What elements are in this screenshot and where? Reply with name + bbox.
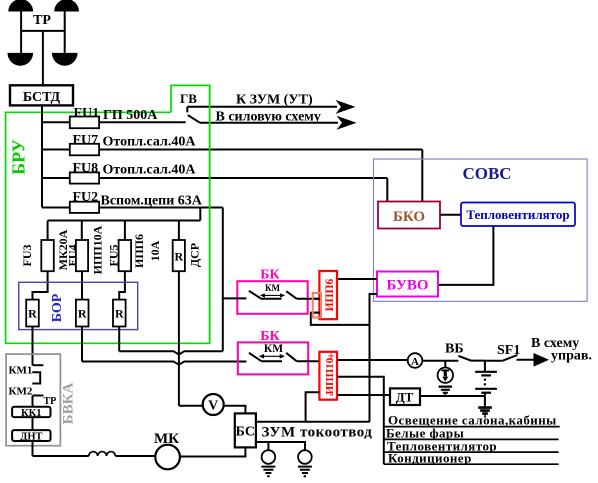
ammeter A (408, 353, 423, 368)
svg-text:FU8: FU8 (73, 161, 99, 176)
block IPP10 (red) (319, 352, 337, 400)
PART: BRU green box (6, 85, 210, 343)
wire FU2 drop to sub-bus (199, 208, 201, 221)
svg-text:БК: БК (260, 329, 280, 344)
PART: GV switch and arrows (180, 91, 356, 130)
battery plate long 1 (475, 371, 497, 373)
block BK2 boundary (magenta) (238, 342, 308, 374)
svg-text:R: R (78, 307, 87, 321)
wire ZUM top line (BS to long vertical) (256, 421, 370, 423)
resistor R1 (26, 300, 39, 327)
wire R2 down and node line B (82, 327, 246, 365)
wire FU8 row (42, 177, 387, 179)
voltmeter V (203, 394, 224, 415)
switch SF1 blade (502, 355, 518, 361)
PART: SOVS block right (337, 159, 587, 422)
block DT (390, 388, 420, 405)
block IPP6 (red) (319, 271, 337, 319)
tokootvod symbol 2 circle (298, 450, 312, 464)
svg-text:ДСР: ДСР (188, 243, 202, 267)
arrowhead V silovuyu (337, 116, 357, 130)
PART: bottom MK, BS, ZUM (33, 394, 373, 476)
wire branch FU5 (119, 221, 125, 300)
svg-text:СОВС: СОВС (462, 164, 511, 183)
wire stem to voltage arrester (444, 361, 446, 368)
load list row 2 underline (384, 438, 559, 440)
svg-text:FU5: FU5 (107, 245, 121, 267)
PART: right bottom battery, DT, list (337, 336, 592, 466)
wire ZUM bottom line (256, 442, 305, 450)
svg-text:FU1: FU1 (74, 106, 100, 121)
PART: top pantographs (8, 0, 80, 85)
battery stem bottom (484, 393, 486, 407)
wire FU1 row (42, 121, 186, 123)
load list row 3 underline (384, 451, 559, 453)
svg-text:R: R (174, 250, 183, 264)
switch VB blade (458, 356, 485, 361)
svg-text:Вспом.цепи 63А: Вспом.цепи 63А (101, 194, 203, 209)
wire branch FU3 (33, 221, 48, 300)
wire center drop to BSTD (42, 31, 44, 85)
svg-text:SF1: SF1 (497, 343, 520, 358)
svg-text:FU2: FU2 (73, 190, 99, 205)
wire MK to BS bottom (180, 447, 246, 456)
svg-text:ТР: ТР (44, 396, 57, 407)
svg-text:управ.: управ. (551, 349, 592, 364)
wire DT to battery bottom (420, 395, 485, 397)
wire IPP6 lower terminal (311, 313, 370, 325)
PART: branch fuses FU3-FU5, DSR, BOR (19, 221, 247, 406)
pantograph collector shoe top-left (8, 0, 33, 12)
arrowhead K ZUM (336, 100, 356, 114)
contact KM1 fixed tick (33, 364, 44, 366)
pantograph base left (8, 53, 34, 66)
block BRU boundary (green) (6, 85, 210, 343)
symbol double arrow BK2 (262, 355, 284, 357)
ground under battery (478, 408, 492, 417)
block KK1 (12, 407, 50, 417)
svg-text:V: V (208, 399, 218, 414)
wire FU7 row (42, 149, 422, 151)
wire FU2 extension drop to BK1 and node line (222, 208, 224, 352)
wire IPP10 main row to ammeter (337, 359, 408, 361)
svg-text:R: R (115, 307, 124, 321)
wire DNT down to bottom bus (32, 441, 34, 456)
wire trunk to V meter (179, 405, 203, 407)
inductor coil (89, 452, 116, 456)
PART: BK contactors and IPP boxes (223, 268, 370, 422)
svg-text:ИПП6: ИПП6 (324, 279, 336, 312)
arrowhead V skhemu uprav (534, 353, 550, 367)
ground under tokootvod 2 (298, 467, 312, 477)
svg-text:Тепловентилятор: Тепловентилятор (466, 207, 569, 222)
wire KK1 to DNT (32, 417, 34, 430)
block BKO (378, 202, 440, 229)
wire BUVO lower-left to long vertical (370, 294, 378, 422)
svg-text:FU4: FU4 (66, 245, 80, 267)
svg-text:ДТ: ДТ (396, 390, 414, 405)
block BUVO (377, 272, 438, 297)
wire FU7 row drop to BKO (421, 150, 423, 202)
svg-text:БКО: БКО (393, 209, 425, 225)
wire trunk from BSTD down (41, 105, 43, 207)
switch GV fixed contact hook (186, 107, 188, 113)
fuse FU3 (41, 240, 54, 271)
ground under tokootvod 1 (261, 467, 275, 477)
wire BK1 input from FU2 branch (223, 297, 247, 299)
fuse FU2 (70, 202, 99, 213)
svg-text:КК1: КК1 (21, 408, 41, 419)
wire FU2 row (42, 207, 223, 209)
wire ammeter to VB switch (422, 360, 458, 362)
block Teploventilyator (461, 203, 575, 227)
battery plate short 2 (481, 392, 491, 394)
wire K ZUM line (187, 106, 337, 108)
load list row 1 underline (384, 426, 560, 428)
battery plate short 1 (481, 374, 491, 376)
wire IPP10 minus output to DT (337, 394, 390, 396)
block BVKA boundary (gray) (6, 354, 60, 446)
switch contact BK1 (249, 291, 297, 299)
block BK1 boundary (magenta) (237, 281, 307, 314)
battery dotted middle (484, 379, 486, 388)
svg-text:КМ2: КМ2 (9, 386, 33, 398)
wire R1 down to KM1 (32, 327, 34, 366)
svg-text:БРУ: БРУ (9, 139, 29, 175)
resistor R3 (113, 300, 126, 327)
svg-text:FU7: FU7 (73, 133, 99, 148)
fuse FU5 (119, 240, 132, 271)
battery VB stem top (484, 361, 486, 372)
svg-text:БОР: БОР (50, 293, 65, 322)
connector (orange) on IPP6 input (313, 293, 321, 318)
svg-text:ГП 500А: ГП 500А (103, 108, 158, 123)
svg-text:БК: БК (260, 268, 280, 283)
svg-text:БС: БС (236, 425, 255, 440)
wire V meter to BS top (224, 406, 246, 414)
wire Teploventilyator down to BUVO (438, 226, 493, 285)
motor MK (155, 445, 180, 470)
tokootvod symbol 1 circle (262, 450, 276, 464)
arrester circle with V-arrow (438, 368, 453, 383)
fuse FU1 (70, 117, 99, 129)
svg-text:ДНТ: ДНТ (20, 432, 42, 443)
svg-text:Отопл.сал.40А: Отопл.сал.40А (103, 135, 197, 150)
wire BK1 output to IPP6 (297, 298, 320, 300)
svg-text:ТР: ТР (33, 13, 51, 28)
block BOR boundary (blue) (19, 282, 138, 329)
contact KM2 fixed tick (33, 396, 44, 407)
ground under arrester (439, 387, 452, 396)
pantograph collector shoe top-right (54, 0, 79, 12)
load list row 4 underline (384, 463, 559, 465)
wire IPP10 mid output to list bus (337, 377, 384, 465)
svg-text:КМ1: КМ1 (9, 365, 33, 377)
PART: BVKA left bottom (6, 354, 76, 456)
fuse FU7 (70, 144, 99, 156)
wire BK2 output to IPP10 (297, 360, 320, 362)
svg-text:БСТД: БСТД (23, 90, 61, 105)
wire BKO to Teploventilyator (440, 214, 461, 216)
wire arrow to control circuit (517, 359, 536, 361)
svg-text:БВКА: БВКА (61, 383, 77, 425)
svg-text:10А: 10А (148, 240, 162, 261)
wire V silovuyu skhemu line (200, 122, 338, 124)
block BSTD (10, 85, 73, 105)
symbol double arrow BK1 (262, 294, 283, 296)
pantograph base right (52, 53, 78, 66)
svg-text:КМ: КМ (265, 283, 281, 293)
svg-text:Кондиционер: Кондиционер (388, 451, 472, 466)
wire sub-bus (48, 220, 201, 222)
svg-text:R: R (28, 307, 37, 321)
svg-text:+: + (328, 349, 335, 363)
wire bottom bus to inductor (33, 455, 89, 457)
wire stem tokootvod 1 (267, 442, 269, 450)
block BS (235, 413, 256, 447)
svg-text:ИПП6: ИПП6 (132, 234, 146, 268)
svg-text:Отопл.сал.40А: Отопл.сал.40А (103, 163, 197, 178)
fuse FU4 (76, 240, 88, 271)
svg-text:FU3: FU3 (20, 245, 34, 267)
battery plate long 2 (475, 388, 497, 390)
resistor R2 (76, 300, 89, 327)
PART: BSTD and fuse rows (10, 85, 422, 351)
svg-text:БУВО: БУВО (386, 278, 428, 294)
block BRU boundary right edge (green, over wires) (209, 85, 211, 343)
wire IPP10 left lower loop to BS line (306, 392, 320, 422)
svg-text:В силовую схему: В силовую схему (216, 110, 321, 125)
wire coil to MK (115, 455, 155, 457)
wire FU8 row drop to BKO (386, 178, 388, 202)
wire IPP6 to BUVO (337, 278, 377, 280)
svg-text:ГВ: ГВ (180, 91, 197, 106)
svg-text:ЗУМ токоотвод: ЗУМ токоотвод (262, 425, 373, 441)
wire stem left (20, 12, 22, 53)
svg-text:А: А (411, 356, 419, 368)
wire IPP6 input terminals (through connector) (313, 299, 321, 313)
switch GV blade (188, 115, 200, 123)
resistor R (DSR) (173, 240, 185, 271)
svg-text:К ЗУМ (УТ): К ЗУМ (УТ) (236, 93, 313, 108)
block SOVS boundary (374, 159, 588, 301)
wire branch FU4 (81, 221, 83, 300)
svg-text:-: - (330, 387, 334, 401)
fuse FU8 (70, 172, 99, 183)
wire stem right (64, 12, 66, 53)
contact bridge bracket (32, 372, 40, 383)
svg-text:КМ: КМ (264, 343, 283, 355)
svg-text:ВБ: ВБ (445, 342, 464, 357)
svg-text:ИПП10А: ИПП10А (91, 225, 105, 274)
block DNT (12, 430, 50, 441)
wire branch DSR trunk (178, 221, 180, 406)
wire R3 down and node line A (119, 327, 223, 355)
svg-text:МК: МК (154, 431, 179, 447)
wire battery top node (485, 360, 502, 362)
wire crossbar (21, 30, 65, 32)
switch contact BK2 (249, 353, 297, 361)
